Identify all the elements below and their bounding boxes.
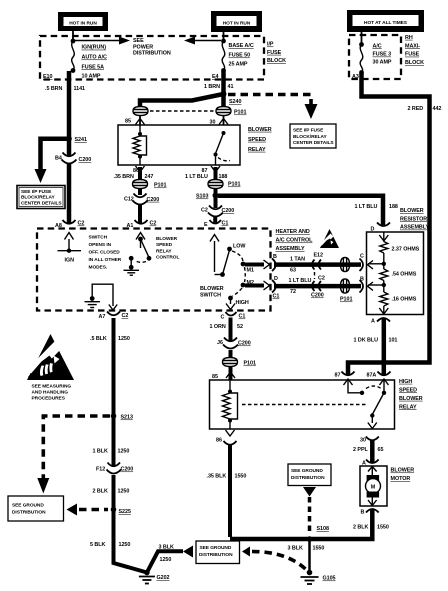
svg-text:E4: E4 — [212, 74, 219, 80]
svg-text:247: 247 — [145, 174, 154, 180]
wire 1 BLK 1250 — [112, 418, 116, 466]
svg-text:MODES.: MODES. — [89, 265, 108, 271]
blower motor pin B — [361, 509, 379, 516]
triangle at right of bottom box — [242, 547, 250, 557]
svg-text:RELAY: RELAY — [156, 248, 172, 254]
svg-text:FUSE 3: FUSE 3 — [373, 52, 392, 58]
blower switch — [210, 235, 249, 310]
svg-text:C2: C2 — [122, 313, 129, 319]
svg-text:S103: S103 — [196, 194, 208, 200]
fuse BASE A/C FUSE 50 25 AMP — [221, 39, 254, 73]
svg-text:30: 30 — [360, 438, 366, 444]
pin 87 arrow — [202, 166, 221, 174]
svg-text:SWITCH: SWITCH — [89, 235, 108, 241]
svg-text:1141: 1141 — [74, 86, 86, 92]
connector A8 C2 — [55, 220, 84, 229]
svg-text:3 BLK: 3 BLK — [288, 546, 303, 552]
resistor pin D connector — [371, 223, 391, 233]
wire C12 to A1 — [138, 205, 142, 223]
blower motor box — [360, 466, 387, 506]
svg-text:1 LT BLU: 1 LT BLU — [289, 278, 312, 284]
splice S240 — [221, 91, 227, 97]
svg-text:ASSEMBLY: ASSEMBLY — [400, 225, 430, 231]
resistor pin C — [360, 254, 374, 272]
see I/P fuse block/relay center details box (right) — [290, 124, 336, 148]
svg-text:A: A — [371, 319, 375, 325]
connector C2 C200 on wire 2 — [311, 276, 325, 299]
svg-text:3 BLK: 3 BLK — [159, 545, 174, 551]
svg-text:IN ALL OTHER: IN ALL OTHER — [89, 257, 122, 263]
svg-text:188: 188 — [219, 174, 228, 180]
blower motor internals — [366, 466, 381, 506]
svg-text:CENTER DETAILS: CENTER DETAILS — [21, 200, 62, 206]
dashed alignment E12/C2 — [314, 272, 316, 279]
ignition switch — [58, 233, 82, 264]
dashed branch to relay center details — [228, 95, 311, 105]
svg-text:A8: A8 — [55, 223, 62, 229]
blower speed relay control label — [156, 236, 179, 261]
pin 87A connector — [367, 372, 391, 386]
svg-text:BLOWER: BLOWER — [156, 236, 178, 242]
ESD triangle large — [27, 334, 74, 380]
see ground distribution box (bottom) — [196, 541, 240, 564]
resistor pin B — [360, 277, 374, 293]
connector P101 barrel on wire 1 — [341, 258, 350, 272]
high speed blower relay label — [399, 379, 423, 411]
svg-text:1250: 1250 — [118, 449, 130, 455]
blower speed relay control switch — [129, 233, 152, 270]
pin D connector — [272, 276, 279, 300]
blower switch label — [200, 286, 224, 299]
wire 1 LT BLU 188 (87) — [214, 167, 218, 179]
pin 30 arrow — [210, 116, 229, 126]
wire 2 BLK 1250 — [112, 475, 116, 509]
svg-text:52: 52 — [237, 324, 243, 330]
svg-text:SEE I/P FUSE: SEE I/P FUSE — [293, 127, 324, 133]
svg-text:HOT AT ALL TIMES: HOT AT ALL TIMES — [364, 20, 408, 26]
pin 86 connector — [224, 441, 237, 445]
svg-text:BLOCK/RELAY: BLOCK/RELAY — [293, 134, 328, 140]
svg-text:C200: C200 — [79, 157, 92, 163]
resistor pin A connector — [371, 318, 390, 325]
wire 1 BRN 41 — [221, 71, 226, 93]
arrow into see I/P fuse details box (right) — [305, 104, 318, 119]
blower speed relay box — [118, 125, 240, 165]
svg-text:BLOCK: BLOCK — [405, 60, 424, 66]
svg-text:BLOWER: BLOWER — [400, 208, 424, 214]
svg-text:FUSE: FUSE — [267, 50, 282, 56]
svg-text:POWER: POWER — [133, 44, 153, 50]
svg-text:1 TAN: 1 TAN — [290, 257, 305, 263]
svg-text:RESISTOR: RESISTOR — [400, 216, 427, 222]
connector A7 C2 — [99, 312, 129, 321]
wire S108 to G105 — [308, 539, 311, 573]
pin 86 arrow — [216, 430, 235, 444]
svg-text:C200: C200 — [147, 197, 160, 203]
svg-text:85: 85 — [125, 119, 131, 125]
ground G202 — [139, 570, 170, 584]
svg-text:BASE A/C: BASE A/C — [229, 43, 254, 49]
svg-text:MAXI-: MAXI- — [405, 43, 420, 49]
dashed center line — [242, 404, 367, 406]
hot in run box 2 — [211, 11, 262, 32]
wire 1 TAN 63 — [274, 262, 361, 267]
splice S108 — [307, 536, 313, 542]
svg-text:1 LT BLU: 1 LT BLU — [355, 204, 378, 210]
svg-text:D: D — [274, 276, 278, 282]
svg-text:RELAY: RELAY — [248, 147, 266, 153]
svg-text:BLOWER: BLOWER — [248, 127, 272, 133]
svg-text:DISTRIBUTION: DISTRIBUTION — [199, 552, 233, 558]
ESD triangle small — [320, 229, 339, 248]
svg-text:2 RED: 2 RED — [408, 106, 424, 112]
svg-text:E: E — [204, 222, 208, 228]
svg-text:M: M — [371, 485, 376, 491]
splice S225 — [111, 507, 117, 513]
wire .35 BRN 247 — [138, 167, 142, 179]
fuse A/C FUSE 3 30 AMP — [359, 42, 392, 75]
svg-text:J6: J6 — [217, 340, 223, 346]
svg-text:S241: S241 — [75, 137, 87, 143]
svg-text:FUSE 5A: FUSE 5A — [82, 64, 105, 70]
svg-text:SEE I/P FUSE: SEE I/P FUSE — [21, 189, 52, 195]
svg-text:C12: C12 — [124, 197, 134, 203]
svg-text:C: C — [221, 315, 225, 321]
svg-text:HIGH: HIGH — [236, 300, 249, 306]
svg-text:SEE MEASURING: SEE MEASURING — [32, 383, 72, 389]
dashed wire to S225 — [79, 508, 108, 512]
wire from hot in run 1 to fuse E10 — [72, 31, 74, 40]
wire 5 BLK 1250 — [114, 510, 147, 573]
splice S241 — [66, 136, 72, 142]
see I/P fuse block/relay center details box (left) — [17, 186, 65, 209]
branch to I/P fuse details arrow — [35, 139, 70, 183]
svg-text:.35 BRN: .35 BRN — [114, 174, 134, 180]
svg-text:1 BRN: 1 BRN — [204, 84, 220, 90]
svg-text:RELAY: RELAY — [399, 404, 417, 410]
svg-text:BLOWER: BLOWER — [391, 468, 415, 474]
svg-text:C1: C1 — [222, 221, 229, 227]
svg-text:B: B — [360, 277, 364, 283]
svg-text:SEE GROUND: SEE GROUND — [291, 468, 323, 474]
svg-text:CENTER DETAILS: CENTER DETAILS — [293, 140, 334, 146]
I/P FUSE BLOCK label — [267, 42, 286, 65]
svg-text:CONTROL: CONTROL — [156, 255, 179, 261]
svg-text:RH: RH — [405, 35, 413, 41]
svg-text:1250: 1250 — [119, 542, 131, 548]
connector E12 C2 on wire 1 — [312, 253, 323, 270]
svg-text:A1: A1 — [127, 223, 134, 229]
svg-text:SEE: SEE — [133, 38, 144, 44]
dashed branch to ground distribution — [43, 416, 110, 478]
wire 3 BLK 1250 — [147, 551, 183, 572]
svg-text:A/C CONTROL: A/C CONTROL — [276, 238, 314, 244]
svg-text:S240: S240 — [229, 99, 241, 105]
relay coil — [133, 125, 147, 165]
wire 1 DK BLU 101 — [382, 319, 387, 375]
svg-text:C200: C200 — [311, 293, 324, 299]
svg-text:10 AMP: 10 AMP — [82, 73, 101, 79]
see ground distribution box (left) — [8, 496, 64, 521]
svg-text:72: 72 — [290, 289, 296, 295]
connector E C1 — [204, 220, 228, 228]
svg-text:DISTRIBUTION: DISTRIBUTION — [291, 475, 325, 481]
svg-text:1550: 1550 — [377, 525, 389, 531]
dashed wire to S108 — [308, 497, 312, 535]
svg-text:1250: 1250 — [160, 557, 172, 563]
svg-text:OPENS IN: OPENS IN — [89, 242, 112, 248]
wire 1 ORN 52 (pin C to hs relay 85) — [221, 312, 246, 321]
svg-text:PROCEDURES: PROCEDURES — [32, 395, 66, 401]
svg-text:DISTRIBUTION: DISTRIBUTION — [12, 509, 46, 515]
svg-text:C1: C1 — [273, 294, 280, 300]
wire .5 BRN 1141 — [67, 71, 72, 156]
connector P101 at 87 — [208, 180, 240, 189]
heater and A/C control assembly dashed box — [37, 229, 271, 311]
svg-text:A/C: A/C — [373, 43, 382, 49]
splice S103 — [213, 193, 219, 199]
hs relay coil — [223, 380, 238, 429]
svg-text:BLOWER: BLOWER — [399, 396, 423, 402]
svg-text:2.37 OHMS: 2.37 OHMS — [392, 247, 420, 253]
triangle at left box — [67, 504, 78, 516]
svg-text:IGN(RUN): IGN(RUN) — [82, 45, 107, 51]
pin B connector — [272, 254, 277, 271]
wire .35 BLK 1550 — [228, 445, 232, 538]
connector B4 C200 — [55, 153, 91, 164]
svg-text:C200: C200 — [121, 467, 134, 473]
svg-text:HEATER AND: HEATER AND — [276, 229, 310, 235]
svg-text:63: 63 — [290, 268, 296, 274]
switch opens text — [89, 235, 122, 271]
svg-text:G202: G202 — [157, 575, 170, 581]
connector C2 C200 on E wire — [201, 206, 234, 217]
blower speed relay label — [248, 127, 272, 153]
svg-text:C2: C2 — [318, 276, 325, 282]
svg-text:30 AMP: 30 AMP — [373, 60, 392, 66]
svg-text:B4: B4 — [55, 156, 62, 162]
svg-text:2 PPL: 2 PPL — [353, 447, 368, 453]
svg-text:BLOWER: BLOWER — [200, 286, 224, 292]
heater and a/c control assembly label — [276, 229, 314, 252]
see measuring and handling procedures — [32, 383, 72, 401]
dashed wire from bottom box to G105 — [252, 552, 307, 571]
svg-text:SWITCH: SWITCH — [200, 293, 221, 299]
blower resistor assembly label — [400, 208, 430, 231]
svg-text:P101: P101 — [244, 361, 256, 367]
ground in relay control — [124, 270, 140, 275]
splice S213 — [111, 413, 117, 419]
svg-text:.35 BLK: .35 BLK — [207, 474, 227, 480]
svg-text:OFF. CLOSED: OFF. CLOSED — [89, 250, 121, 256]
svg-text:M2: M2 — [247, 280, 254, 286]
svg-text:101: 101 — [389, 338, 398, 344]
svg-text:S225: S225 — [119, 509, 131, 515]
svg-text:1 LT BLU: 1 LT BLU — [185, 174, 208, 180]
svg-text:41: 41 — [228, 84, 234, 90]
svg-text:1 BLK: 1 BLK — [93, 449, 108, 455]
svg-text:C200: C200 — [222, 208, 235, 214]
wire S240 to relay pins — [140, 94, 224, 106]
svg-text:1 DK BLU: 1 DK BLU — [354, 338, 379, 344]
svg-text:HIGH: HIGH — [399, 379, 412, 385]
svg-text:HOT IN RUN: HOT IN RUN — [69, 21, 97, 27]
svg-text:86: 86 — [216, 438, 222, 444]
wire 2 PPL 65 — [370, 440, 375, 463]
svg-text:SEE GROUND: SEE GROUND — [200, 545, 232, 551]
svg-text:1 ORN: 1 ORN — [210, 324, 226, 330]
blower motor label — [391, 468, 415, 483]
svg-text:.16 OHMS: .16 OHMS — [392, 297, 417, 303]
svg-text:E10: E10 — [43, 74, 52, 80]
svg-text:FUSE 50: FUSE 50 — [229, 53, 251, 59]
wire B4 to A8 — [67, 163, 72, 223]
svg-text:1250: 1250 — [118, 336, 130, 342]
wire 2 BLK 1550 — [230, 510, 372, 540]
high speed blower relay box — [210, 380, 395, 429]
ground G105 — [301, 570, 336, 584]
svg-text:C2: C2 — [150, 221, 157, 227]
svg-text:C200: C200 — [238, 341, 251, 347]
svg-text:M1: M1 — [247, 268, 254, 274]
I/P fuse block dashed box — [40, 36, 264, 80]
svg-text:65: 65 — [378, 447, 384, 453]
svg-text:C2: C2 — [201, 208, 208, 214]
wire hot at all times to fuse — [361, 32, 363, 44]
svg-text:87A: 87A — [367, 373, 377, 379]
pin 85 arrow — [125, 116, 145, 125]
wire from hot in run 2 to fuse E4 — [223, 32, 225, 40]
svg-text:P101: P101 — [228, 182, 240, 188]
fuse IGN(RUN) AUTO A/C 10 AMP — [71, 39, 107, 80]
svg-text:P101: P101 — [340, 297, 352, 303]
svg-text:.5 BLK: .5 BLK — [90, 336, 107, 342]
svg-text:25 AMP: 25 AMP — [229, 62, 248, 68]
resistor chain — [379, 232, 388, 314]
connector F12 C200 — [96, 463, 133, 474]
wire 1 LT BLU 72 — [274, 284, 361, 289]
heater assembly internal ground — [85, 284, 118, 310]
svg-text:S213: S213 — [121, 415, 133, 421]
svg-text:SPEED: SPEED — [399, 387, 417, 393]
blower motor pin A — [362, 460, 379, 467]
svg-text:SPEED: SPEED — [156, 242, 173, 248]
svg-text:F12: F12 — [96, 467, 105, 473]
see power distribution arrow left — [184, 37, 221, 45]
wire to C12 — [138, 189, 142, 196]
connector P101 at 86 — [133, 180, 167, 189]
pin 85 arrow (hs relay) — [212, 372, 235, 380]
hot at all times box — [347, 10, 424, 32]
wire 1 LT BLU 188 to resistor D — [218, 196, 383, 225]
svg-text:BLOCK: BLOCK — [267, 58, 286, 64]
pin 30 connector — [360, 437, 379, 444]
svg-text:87: 87 — [335, 373, 341, 379]
blower resistor assembly box — [367, 232, 424, 315]
triangle into bottom box — [183, 546, 193, 558]
hs relay switch — [348, 380, 386, 429]
svg-text:SPEED: SPEED — [248, 137, 266, 143]
svg-text:S108: S108 — [317, 526, 329, 532]
M2 contact wire — [245, 280, 270, 290]
see ground distribution box (middle) — [288, 464, 331, 486]
connector J6 C200 — [217, 338, 251, 349]
wire 2 RED 442 — [348, 73, 430, 375]
svg-text:LOW: LOW — [233, 244, 246, 250]
arrow below box — [303, 487, 316, 497]
svg-text:FUSE: FUSE — [405, 52, 420, 58]
relay switch 30-87 — [214, 131, 231, 165]
svg-text:1550: 1550 — [313, 546, 325, 552]
connector P101 barrel on wire 2 — [340, 279, 352, 303]
RH maxifuse block dashed box — [349, 35, 401, 79]
svg-text:A3: A3 — [352, 74, 359, 80]
wire .5 BLK 1250 — [112, 318, 116, 414]
svg-text:P101: P101 — [154, 183, 166, 189]
svg-text:188: 188 — [389, 204, 398, 210]
svg-text:C2: C2 — [78, 221, 85, 227]
svg-text:ASSEMBLY: ASSEMBLY — [276, 246, 306, 252]
svg-text:G105: G105 — [323, 576, 336, 582]
svg-text:1550: 1550 — [235, 474, 247, 480]
svg-text:B: B — [273, 254, 277, 260]
svg-text:SEE GROUND: SEE GROUND — [12, 502, 44, 508]
svg-text:442: 442 — [433, 106, 442, 112]
svg-text:E12: E12 — [314, 253, 323, 259]
svg-text:I/P: I/P — [267, 42, 274, 48]
RH MAXIFUSE BLOCK label — [405, 35, 424, 66]
svg-text:2 BLK: 2 BLK — [93, 489, 108, 495]
see power distribution arrow right — [75, 37, 171, 57]
svg-text:2 BLK: 2 BLK — [353, 525, 368, 531]
wire to S103 — [214, 189, 218, 209]
svg-text:1250: 1250 — [118, 489, 130, 495]
svg-text:IGN: IGN — [65, 258, 75, 264]
svg-text:AUTO A/C: AUTO A/C — [82, 55, 108, 61]
svg-text:P101: P101 — [234, 110, 246, 116]
svg-text:85: 85 — [212, 374, 218, 380]
connector P101 at pin 30 — [216, 107, 246, 116]
svg-text:BLOCK/RELAY: BLOCK/RELAY — [21, 195, 56, 201]
M1 contact wire — [245, 260, 270, 274]
svg-text:C1: C1 — [239, 314, 246, 320]
connector P101 at pin 85 — [133, 107, 148, 116]
svg-text:5 BLK: 5 BLK — [90, 542, 105, 548]
connector A1 C2 — [127, 220, 157, 229]
connector C12 C200 — [124, 194, 159, 205]
svg-text:.54 OHMS: .54 OHMS — [392, 272, 417, 278]
svg-text:DISTRIBUTION: DISTRIBUTION — [133, 51, 171, 57]
svg-text:AND HANDLING: AND HANDLING — [32, 389, 69, 395]
svg-text:.5 BRN: .5 BRN — [45, 86, 63, 92]
resistor taps — [368, 263, 382, 265]
dashed alignment between P101 halves — [150, 110, 214, 112]
connector P101 (hs relay 85) — [223, 358, 256, 367]
pin 87 connector (hs relay) — [335, 372, 355, 386]
svg-text:HOT IN RUN: HOT IN RUN — [223, 20, 251, 26]
hot in run box 1 — [58, 12, 108, 31]
svg-text:B: B — [361, 510, 365, 516]
svg-text:C: C — [360, 254, 364, 260]
pin 86 arrow — [133, 166, 145, 174]
svg-text:A7: A7 — [99, 314, 106, 320]
svg-text:MOTOR: MOTOR — [391, 476, 411, 482]
